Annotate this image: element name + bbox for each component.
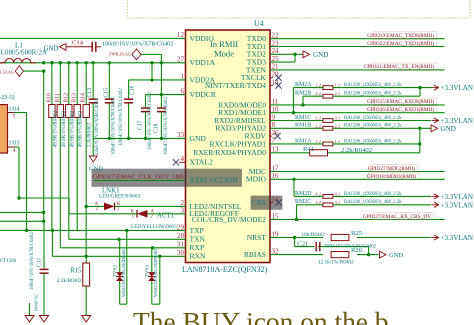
svg-text:LED/GREEN/0603: LED/GREEN/0603: [99, 194, 140, 200]
label GPIO22 EMAC_TXD1: [367, 40, 437, 47]
left edge value text: [0, 259, 17, 264]
svg-text:C15: C15: [103, 88, 109, 98]
svg-text:RA1206_(4X0603)_488_2.2k: RA1206_(4X0603)_488_2.2k: [344, 200, 402, 205]
LED ACT1: [131, 210, 155, 220]
R25 reference: [351, 230, 363, 237]
svg-text:GPIO26\EMAC_RXD1(RMII): GPIO26\EMAC_RXD1(RMII): [367, 106, 434, 113]
svg-text:XTAL1/CLKIN: XTAL1/CLKIN: [190, 176, 239, 185]
R26 reference: [351, 247, 363, 254]
U4 left pin names and numbers: [177, 31, 242, 261]
RM1A reference: [295, 138, 312, 144]
RM1B value: [344, 124, 402, 129]
svg-text:100nF/16V/10%/X7R/C0402: 100nF/16V/10%/X7R/C0402: [30, 232, 35, 290]
wire x152 stub: [151, 63, 153, 80]
SOT pin5 name: [9, 107, 20, 113]
label GPIO21 EMAC_TX_EN: [364, 63, 437, 70]
svg-text:RXN: RXN: [190, 252, 206, 261]
wire SOT pin4: [8, 147, 20, 198]
svg-text:5: 5: [13, 114, 16, 120]
PWR_FLAG left: [0, 66, 44, 77]
wire TXD2 to GND: [270, 53, 303, 56]
svg-text:10k/R0402: 10k/R0402: [302, 232, 326, 238]
C17 value: [148, 92, 153, 150]
R25 value: [302, 232, 326, 238]
TVS2 reference: [113, 265, 119, 278]
power +3.3VLAN RM2D: [432, 193, 474, 201]
svg-text:TVS3: TVS3: [145, 265, 151, 278]
no-connect X pin 14 TXD4: [270, 82, 282, 88]
power +3.3VLAN NRST: [432, 234, 474, 242]
resistor R26: [331, 252, 349, 258]
svg-text:Mode: Mode: [214, 49, 234, 59]
svg-text:GND: GND: [389, 252, 404, 259]
svg-text:+3.3VLAN: +3.3VLAN: [441, 117, 474, 125]
wire CRS_DV: [270, 219, 445, 221]
power GND TXD2/TXD3: [303, 51, 328, 59]
wire R15 column: [85, 286, 87, 316]
wire MDIO: [270, 178, 445, 181]
U4 right pin names and numbers: [192, 32, 279, 260]
capacitor C18: [157, 108, 166, 112]
svg-text:RXER/RXD4/PHYAD0: RXER/RXD4/PHYAD0: [193, 148, 266, 157]
resistor RM2C: [323, 203, 333, 207]
R14 reference: [81, 93, 87, 103]
TVS2 value: [121, 248, 126, 297]
svg-text:LNK1: LNK1: [102, 187, 120, 194]
svg-text:R11: R11: [55, 93, 61, 102]
wire C11 column: [43, 221, 45, 269]
grey highlight XTAL1/CLKIN pin name: [92, 169, 242, 187]
svg-text:PWR_FLAG: PWR_FLAG: [109, 52, 131, 57]
RM2B value: [344, 92, 402, 97]
R41 value: [341, 147, 372, 154]
svg-text:RA1206_(4X0603)_488_2.2k: RA1206_(4X0603)_488_2.2k: [344, 139, 402, 144]
SOT footprint note: [0, 94, 15, 101]
wire RXD1: [270, 111, 445, 114]
RM1B reference: [295, 123, 311, 129]
svg-text:TXN: TXN: [190, 235, 206, 244]
inductor L1: [0, 59, 36, 63]
C13 reference: [87, 88, 93, 98]
resistor R12: [66, 105, 72, 118]
capacitor C16: [124, 99, 133, 103]
R26 value: [318, 260, 354, 266]
C16 reference: [130, 85, 136, 95]
svg-text:+3.3VLAN: +3.3VLAN: [441, 193, 474, 201]
wire y198: [17, 196, 69, 199]
wire RM2C row: [295, 205, 431, 221]
wire TXN: [69, 238, 186, 241]
RM1B pins: [315, 123, 340, 128]
svg-text:R15: R15: [70, 268, 82, 275]
svg-text:C18: C18: [154, 123, 160, 133]
label GPIO27 EMAC_RX_CRS_DV: [363, 213, 434, 220]
RM2C reference: [295, 199, 311, 205]
svg-text:RM2B: RM2B: [295, 91, 311, 97]
capacitor C15: [105, 99, 114, 103]
svg-text:100nF/16V/10%/X7R/C0402: 100nF/16V/10%/X7R/C0402: [164, 97, 169, 155]
resistor RM1B: [323, 126, 333, 130]
resistor R13: [74, 105, 80, 118]
wire x43.7 column: [43, 71, 45, 221]
svg-text:RA1206_(4X0603)_488_2.2k: RA1206_(4X0603)_488_2.2k: [344, 124, 402, 129]
SOT pin4 number: [13, 148, 16, 154]
svg-text:MDIO: MDIO: [246, 175, 267, 184]
grey highlight CRS pin name: [251, 196, 283, 210]
svg-text:2.2k/R0402: 2.2k/R0402: [87, 122, 93, 147]
wire RM2A row: [294, 86, 432, 113]
wire TVS3 legs: [152, 248, 162, 304]
wire TVS2 legs: [120, 229, 129, 305]
svg-text:RBIAS: RBIAS: [244, 250, 266, 259]
wire RXD0: [270, 103, 445, 106]
RM1C value: [344, 116, 402, 121]
wire R12 column: [68, 63, 70, 240]
R15 reference: [70, 268, 82, 275]
svg-text:1/04: 1/04: [9, 107, 20, 113]
svg-text:COL/CRS_DV/MODE2: COL/CRS_DV/MODE2: [192, 215, 266, 224]
bottom note text: [133, 307, 388, 325]
power GND top-left: [44, 43, 92, 52]
wire R11 column: [59, 63, 61, 248]
svg-text:TVS2: TVS2: [113, 265, 119, 278]
svg-text:RA1206_(4X0603)_488_2.2k: RA1206_(4X0603)_488_2.2k: [344, 92, 402, 97]
wire MDC: [270, 171, 445, 173]
resistor R14: [83, 105, 89, 118]
resistor R41: [310, 150, 328, 156]
svg-text:In RMII: In RMII: [210, 39, 238, 49]
wire VDDIO rail: [0, 37, 186, 39]
wire TXD1: [270, 46, 445, 48]
U4 reference: [254, 19, 264, 28]
TVS diode TVS3: [148, 272, 156, 281]
svg-text:3.1: 3.1: [335, 116, 341, 121]
svg-text:GND: GND: [441, 125, 456, 133]
svg-text:RXP: RXP: [190, 243, 205, 252]
svg-text:2.1: 2.1: [335, 123, 341, 128]
svg-text:2.2k/R0402: 2.2k/R0402: [57, 278, 82, 284]
LNK1 reference: [102, 187, 120, 194]
C11 value: [30, 232, 35, 290]
R11 value: [61, 111, 67, 148]
svg-text:RM2A: RM2A: [295, 82, 312, 88]
RM2D value: [344, 192, 402, 197]
resistor RM2D: [323, 195, 333, 199]
wire RM1A row: [270, 142, 421, 145]
ACT1 value: [131, 224, 177, 230]
svg-text:1.2: 1.2: [315, 139, 321, 144]
TVS diode TVS2: [116, 272, 124, 281]
svg-text:GND: GND: [190, 134, 207, 143]
svg-text:3.1: 3.1: [335, 200, 341, 205]
C14 reference: [72, 40, 84, 47]
C18 value: [164, 97, 169, 155]
RM2A reference: [295, 82, 312, 88]
power +3.3VLAN RM2C: [432, 201, 474, 209]
wire ACT1 row: [69, 198, 185, 214]
wire VDD1A rail: [0, 62, 186, 64]
LNK1 value: [99, 194, 140, 200]
svg-text:4.1: 4.1: [335, 191, 341, 196]
C21 reference: [297, 241, 308, 248]
R41 reference: [303, 146, 314, 153]
svg-text:C21: C21: [297, 241, 308, 248]
svg-text:C13: C13: [87, 88, 93, 98]
wire RXN: [52, 230, 185, 258]
RM2B reference: [295, 91, 311, 97]
capacitor C21: [316, 242, 320, 252]
svg-text:XTAL2: XTAL2: [190, 158, 213, 167]
RM2D reference: [295, 191, 312, 197]
wire R14 column: [85, 63, 87, 263]
capacitor C14: [92, 42, 101, 52]
C18 reference: [154, 123, 160, 133]
capacitor C11: [40, 269, 49, 273]
label GPIO18 MDIO: [367, 173, 419, 180]
junction TXP row dots: [25, 229, 54, 232]
svg-text:4: 4: [13, 148, 16, 154]
svg-text:CRS: CRS: [252, 198, 266, 207]
svg-text:NRST: NRST: [247, 233, 267, 242]
svg-text:22uF/6.3V/20%/X5R/C0603: 22uF/6.3V/20%/X5R/C0603: [95, 98, 100, 155]
capacitor C13: [89, 99, 98, 103]
wire C11 to ground: [43, 273, 45, 315]
svg-text:RXCLK/PHYAD1: RXCLK/PHYAD1: [210, 139, 267, 148]
svg-text:1.2: 1.2: [315, 83, 321, 88]
RM1C pins: [315, 116, 340, 121]
wire RM2B row: [303, 88, 420, 105]
svg-text:GPIO17\EMAC_CLK_OUT_180: GPIO17\EMAC_CLK_OUT_180: [93, 174, 183, 181]
svg-text:VDD1A: VDD1A: [190, 58, 216, 67]
svg-text:1.1: 1.1: [335, 83, 341, 88]
PWR_FLAG mid: [109, 49, 161, 60]
svg-text:100nF/16V/10%/X7R/C0402: 100nF/16V/10%/X7R/C0402: [102, 41, 173, 47]
resistor RM2A: [323, 86, 333, 90]
C21 value: [325, 244, 377, 249]
svg-text:The BUY icon on the b: The BUY icon on the b: [133, 307, 388, 325]
svg-text:4.2: 4.2: [315, 191, 321, 196]
svg-text:RA1206_(4X0603)_488_2.2k: RA1206_(4X0603)_488_2.2k: [344, 116, 402, 121]
svg-text:12.1k/1%/R0402: 12.1k/1%/R0402: [318, 260, 354, 266]
svg-text:1.1: 1.1: [335, 139, 341, 144]
label GPIO27 MDC: [368, 165, 418, 172]
resistor R15: [83, 263, 90, 286]
wire RXD3 RM1B row: [270, 127, 431, 130]
svg-text:R26: R26: [351, 247, 363, 254]
svg-text:3.2: 3.2: [315, 116, 321, 121]
svg-text:RA1206_(4X0603)_488_2.2k: RA1206_(4X0603)_488_2.2k: [344, 83, 402, 88]
label GPIO17\EMAC_CLK_OUT_180: [93, 174, 183, 181]
SOT pin5 number: [13, 114, 16, 120]
left edge cap value: [34, 294, 39, 312]
label GPIO25 EMAC_RXD0: [367, 98, 437, 105]
wire y212.4: [0, 211, 45, 214]
RM2C pins: [315, 200, 340, 205]
TVS3 value: [153, 248, 158, 297]
R15 value: [57, 278, 82, 284]
transistor U-SOT body: [0, 105, 8, 153]
RM2A pins: [315, 83, 340, 88]
op-amp U4 body LAN8710A: [186, 30, 271, 263]
wire NRST row: [270, 236, 431, 239]
wire PWR_FLAG mid column: [160, 54, 162, 138]
svg-text:100nF/16V/10%/X7R/C0402: 100nF/16V/10%/X7R/C0402: [119, 88, 124, 146]
resistor RM1A: [323, 142, 333, 146]
no-connect X pin 26 RXDV: [270, 133, 281, 139]
label GPIO19 EMAC_TXD0: [367, 32, 437, 39]
wire RXD2 RM1C row: [270, 120, 431, 122]
R10 value: [52, 111, 58, 148]
svg-text:GPIO25\EMAC_RXD0(RMII): GPIO25\EMAC_RXD0(RMII): [367, 98, 434, 105]
ground C11: [40, 316, 49, 323]
svg-text:U4: U4: [254, 19, 264, 28]
R10 reference: [46, 93, 52, 103]
svg-text:WE82356120L/SMD0402: WE82356120L/SMD0402: [153, 248, 158, 297]
svg-text:R25: R25: [351, 230, 363, 237]
svg-text:(SOT-23-5): (SOT-23-5): [0, 94, 15, 101]
svg-text:R12: R12: [63, 93, 69, 103]
svg-text:PWR_FLAG: PWR_FLAG: [0, 70, 14, 75]
svg-text:+3.3VLAN: +3.3VLAN: [441, 234, 474, 242]
RM2D pins: [315, 191, 340, 196]
wire TXEN: [270, 69, 445, 71]
wire R41 row: [270, 128, 420, 153]
wire SOT pin5: [8, 113, 27, 231]
svg-text:NINT/TXER/TXD4: NINT/TXER/TXD4: [205, 81, 266, 90]
no-connect X pin 20 TXCLK: [270, 75, 282, 81]
svg-text:100nF/16: 100nF/16: [34, 294, 39, 312]
svg-text:1/03: 1/03: [9, 141, 20, 147]
RM1A pins: [315, 139, 340, 144]
svg-text:C14: C14: [72, 40, 84, 47]
resistor R10: [49, 105, 55, 118]
LED LNK1: [95, 202, 121, 212]
svg-text:VDDIO: VDDIO: [190, 34, 215, 43]
svg-text:LAN8710A-EZC(QFN32): LAN8710A-EZC(QFN32): [182, 265, 268, 274]
svg-text:R41: R41: [303, 146, 314, 153]
C11 reference: [37, 258, 43, 267]
ground GND33: [89, 138, 104, 172]
resistor RM1C: [323, 119, 333, 123]
wire GND pin33: [93, 137, 185, 140]
wire R10 column: [51, 63, 53, 231]
svg-text:2.1: 2.1: [335, 91, 341, 96]
label GPIO26 EMAC_RXD1: [367, 106, 437, 113]
In RMII Mode note: [210, 39, 238, 59]
RM1A value: [344, 139, 402, 144]
svg-text:C11: C11: [37, 258, 43, 267]
wire RXP: [60, 246, 185, 249]
svg-text:GPIO22\EMAC_TXD1(RMII): GPIO22\EMAC_TXD1(RMII): [367, 40, 434, 47]
C17 reference: [138, 120, 144, 130]
svg-text:R14: R14: [81, 93, 87, 103]
no-connect X pin 14 CRS: [270, 199, 282, 205]
L1 value: [1, 49, 48, 57]
svg-text:RA1206_(4X0603)_488_2.2k: RA1206_(4X0603)_488_2.2k: [344, 192, 402, 197]
R13 reference: [72, 93, 78, 103]
power +3.3VLAN RM1C: [432, 117, 474, 125]
svg-text:R10: R10: [46, 93, 52, 103]
svg-text:GPIO18\MDIO(RMII): GPIO18\MDIO(RMII): [367, 173, 416, 180]
wire RM2D row: [294, 179, 431, 196]
C15 value: [111, 97, 116, 155]
power GND RBIAS: [380, 251, 404, 259]
dashed selection box: [127, 0, 470, 18]
svg-text:+3.3VLAN: +3.3VLAN: [441, 201, 474, 209]
svg-text:2.2: 2.2: [315, 91, 321, 96]
resistor RM2B: [323, 94, 333, 98]
RM2C value: [344, 200, 402, 205]
svg-text:C17: C17: [138, 120, 144, 130]
svg-text:GND: GND: [89, 165, 104, 172]
svg-text:WE82356120L/SMD0402: WE82356120L/SMD0402: [121, 248, 126, 297]
SOT pin4 name: [9, 141, 20, 147]
resistor R25: [331, 234, 349, 240]
ground left edge cap: [25, 303, 34, 322]
wire LNK1 row: [85, 205, 186, 208]
R12 value: [69, 111, 75, 148]
RM2A value: [344, 83, 402, 88]
svg-text:2.2: 2.2: [315, 123, 321, 128]
svg-text:RM1B: RM1B: [295, 123, 311, 129]
R12 reference: [63, 93, 69, 103]
svg-text:+3.3VLAN: +3.3VLAN: [441, 84, 474, 92]
RM1C reference: [295, 115, 311, 121]
wire y221.3: [0, 220, 45, 223]
svg-text:L0805/600R/2A: L0805/600R/2A: [1, 49, 48, 57]
svg-text:TXP: TXP: [190, 226, 204, 235]
RM2B pins: [315, 91, 340, 96]
svg-text:VDDCR: VDDCR: [190, 90, 217, 99]
wire C13 column: [92, 63, 94, 139]
svg-text:RM1A: RM1A: [295, 138, 312, 144]
svg-text:GPIO27\MDC(RMII): GPIO27\MDC(RMII): [368, 165, 415, 172]
R14 value: [87, 122, 93, 147]
svg-text:GPIO19\EMAC_TXD0(RMII): GPIO19\EMAC_TXD0(RMII): [367, 32, 434, 39]
ACT1 reference: [157, 213, 175, 220]
wire TXP: [0, 229, 186, 231]
C16 value: [119, 88, 124, 146]
capacitor C17: [141, 108, 150, 112]
svg-text:3.2: 3.2: [315, 200, 321, 205]
svg-text:RM1C: RM1C: [295, 115, 311, 121]
svg-text:CT1206: CT1206: [0, 259, 17, 264]
power GND RM1B: [431, 125, 456, 133]
wire TXD3: [270, 54, 295, 62]
wire VDDCR rail: [146, 93, 186, 138]
wire TXD0: [270, 38, 445, 40]
svg-text:GND: GND: [44, 46, 59, 53]
svg-text:GPIO27\EMAC_RX_CRS_DV: GPIO27\EMAC_RX_CRS_DV: [363, 214, 431, 220]
power +3.3VLAN RM2: [432, 84, 474, 92]
TVS3 reference: [145, 265, 151, 278]
U4 value LAN8710A-EZC(QFN32): [182, 265, 268, 274]
svg-text:RM2D: RM2D: [295, 191, 312, 197]
ground R15: [82, 316, 91, 323]
no-connect X pin 4 XTAL2: [173, 159, 186, 165]
R13 value: [78, 111, 84, 148]
svg-text:GPIO21\EMAC_TX_EN(RMII): GPIO21\EMAC_TX_EN(RMII): [364, 63, 434, 70]
svg-text:RM2C: RM2C: [295, 199, 311, 205]
svg-text:R13: R13: [72, 93, 78, 103]
svg-text:C16: C16: [130, 85, 136, 95]
wire VDD2A rail: [129, 78, 186, 138]
svg-text:100nF/16V/10%/X7R/C0402: 100nF/16V/10%/X7R/C0402: [148, 92, 153, 150]
wire RBIAS row: [270, 253, 379, 256]
resistor R11: [57, 105, 63, 118]
junction dots on VDD1A rail: [42, 61, 163, 73]
wire C21 row: [295, 238, 369, 255]
